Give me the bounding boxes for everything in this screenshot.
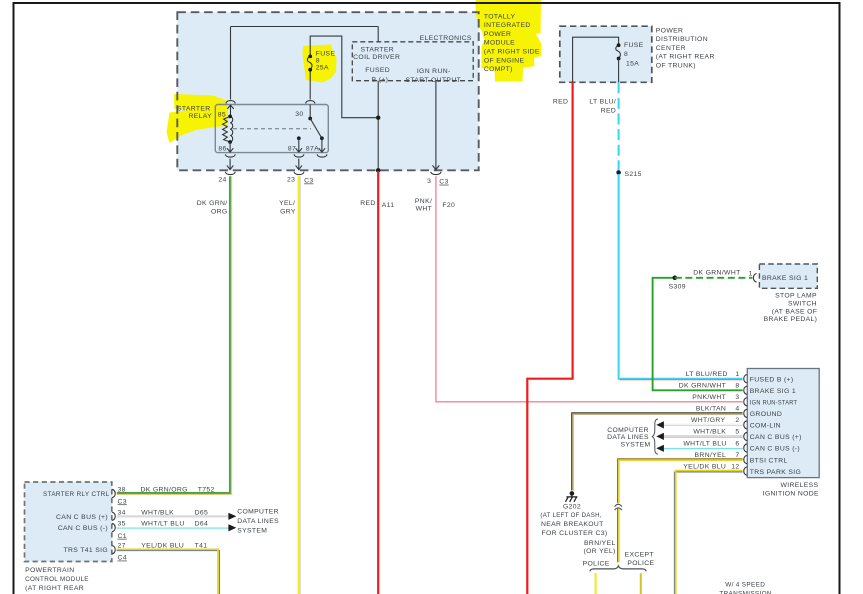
- WIN box fill: [747, 369, 819, 478]
- PDC fuse 8 15A element: [616, 45, 621, 58]
- svg-text:STOP LAMP: STOP LAMP: [775, 293, 817, 300]
- split bracket under BRN/YEL: [590, 566, 646, 572]
- wire: relay 86 to TIPM pin 24: [227, 159, 233, 170]
- svg-text:WHT: WHT: [416, 206, 433, 213]
- wire: relay pin85 riser inside TIPM: [230, 27, 232, 100]
- svg-text:8: 8: [316, 57, 320, 64]
- wire DK GRN/ORG pin24 to PCM 38 (green): [117, 176, 230, 493]
- svg-text:EXCEPT: EXCEPT: [625, 552, 654, 559]
- svg-text:4: 4: [735, 406, 739, 413]
- PCM connector arcs: [112, 489, 115, 554]
- wire: relay 87 to TIPM pin 23: [296, 159, 302, 170]
- svg-text:(OR YEL): (OR YEL): [583, 548, 615, 555]
- arrow: pin 3 at TIPM edge: [433, 165, 440, 169]
- svg-text:CONTROL MODULE: CONTROL MODULE: [25, 576, 89, 583]
- wire LT BLU/RED dashed upper: [618, 82, 620, 172]
- svg-text:RELAY: RELAY: [188, 113, 212, 120]
- wire break symbol on BRN/YEL: [615, 503, 623, 508]
- wire YEL/DK BLU PCM 27 dark tracer: [117, 551, 220, 594]
- PCM dashed border: [25, 482, 112, 562]
- PDC dashed border: [560, 26, 652, 82]
- wire RED from PDC: [527, 82, 572, 594]
- svg-text:DATA LINES: DATA LINES: [237, 518, 279, 525]
- svg-text:POLICE: POLICE: [583, 561, 610, 568]
- wire YEL/DK BLU from WIN 12: yellow: [676, 471, 743, 594]
- svg-text:BRN/YEL: BRN/YEL: [584, 540, 616, 547]
- svg-text:DK GRN/WHT: DK GRN/WHT: [679, 383, 726, 390]
- relay pin87 stub and arrow: [296, 138, 302, 152]
- relay pin85 arrow up: [227, 105, 233, 116]
- svg-text:FOR CLUSTER C3): FOR CLUSTER C3): [541, 530, 607, 537]
- ground G202 symbol: [566, 493, 578, 501]
- wire WHT/LT BLU: [664, 447, 743, 449]
- relay pin86 stub and arrow down: [227, 142, 233, 152]
- svg-text:12: 12: [731, 463, 739, 470]
- svg-text:87A: 87A: [306, 145, 319, 152]
- svg-text:NEAR BREAKOUT: NEAR BREAKOUT: [541, 521, 604, 528]
- svg-text:ORG: ORG: [211, 209, 228, 216]
- wire WHT/BLK PCM 34: [117, 515, 229, 517]
- svg-text:C3: C3: [304, 178, 313, 185]
- svg-text:C4: C4: [118, 555, 127, 562]
- node S309: [673, 276, 678, 281]
- svg-text:DATA LINES: DATA LINES: [607, 434, 649, 441]
- node: TIPM edge junction to RED wire: [376, 168, 381, 173]
- svg-text:BRAKE PEDAL): BRAKE PEDAL): [764, 316, 818, 323]
- wire LT BLU/RED solid to WIN pin1: [619, 174, 743, 379]
- PCM box fill: [25, 482, 112, 562]
- svg-text:OF TRUNK): OF TRUNK): [656, 63, 696, 70]
- wire: fuse8 riser from relay pin30: [309, 70, 311, 100]
- svg-text:POWERTRAIN: POWERTRAIN: [25, 567, 74, 574]
- svg-text:INTEGRATED: INTEGRATED: [484, 22, 531, 29]
- node: pin30 pivot: [308, 117, 312, 121]
- PDC fuse lower stub: [618, 59, 620, 83]
- svg-text:BRAKE SIG 1: BRAKE SIG 1: [750, 388, 796, 395]
- svg-text:YEL/DK BLU: YEL/DK BLU: [683, 463, 726, 470]
- svg-text:1: 1: [749, 270, 753, 277]
- svg-text:BRN/YEL: BRN/YEL: [695, 452, 727, 459]
- svg-text:WIRELESS: WIRELESS: [780, 482, 818, 489]
- svg-text:C3: C3: [439, 179, 448, 186]
- node: 87A contact: [320, 136, 324, 140]
- stop lamp switch dashed border: [759, 264, 817, 288]
- svg-text:CENTER: CENTER: [656, 45, 686, 52]
- svg-text:FUSE: FUSE: [316, 50, 336, 57]
- svg-text:CAN C BUS (-): CAN C BUS (-): [750, 446, 800, 453]
- relay coil R zigzag: [223, 116, 231, 142]
- connector arcs below relay box: [225, 154, 327, 157]
- svg-text:FUSED: FUSED: [365, 67, 390, 74]
- wire WHT/LT BLU PCM 35: [117, 527, 229, 529]
- wire WHT/GRY: [664, 424, 743, 426]
- ground G202 dot: [570, 491, 575, 496]
- svg-text:BTSI CTRL: BTSI CTRL: [750, 457, 788, 464]
- svg-text:COMPT): COMPT): [484, 66, 513, 73]
- wire BLK/TAN black part: [572, 413, 743, 491]
- wire WHT/BLK: [664, 435, 743, 437]
- PDC box fill: [560, 26, 652, 82]
- wire YEL/DK BLU from WIN 12: dark tracer: [674, 472, 742, 594]
- stop lamp switch box fill: [759, 264, 817, 288]
- svg-text:SYSTEM: SYSTEM: [620, 442, 650, 449]
- svg-text:WHT/BLK: WHT/BLK: [693, 429, 726, 436]
- wire BRN/YEL yellow part: [619, 460, 743, 562]
- relay connector arc above box at pin 30: [306, 101, 315, 104]
- svg-text:G202: G202: [563, 504, 581, 511]
- svg-text:STARTER: STARTER: [361, 47, 395, 54]
- TIPM box fill: [177, 12, 478, 170]
- svg-text:38: 38: [118, 487, 126, 494]
- svg-text:DK GRN/: DK GRN/: [197, 200, 228, 207]
- relay connector arc above box at pin 85: [226, 101, 235, 104]
- svg-text:S309: S309: [669, 283, 686, 290]
- wire: IGN RUN-START OUTPUT drop: [435, 81, 437, 169]
- svg-text:PNK/: PNK/: [415, 198, 432, 205]
- data line arrows (right, point left): [656, 421, 664, 452]
- svg-text:RED: RED: [360, 200, 375, 207]
- svg-text:1: 1: [735, 371, 739, 378]
- svg-text:8: 8: [735, 383, 739, 390]
- svg-text:COM-LIN: COM-LIN: [750, 423, 781, 430]
- svg-text:TRS PARK SIG: TRS PARK SIG: [750, 469, 801, 476]
- svg-text:CAN C BUS (-): CAN C BUS (-): [58, 525, 108, 532]
- svg-text:5: 5: [735, 429, 739, 436]
- WIN connector arcs: [744, 375, 747, 476]
- svg-text:PNK/WHT: PNK/WHT: [692, 394, 726, 401]
- svg-text:23: 23: [287, 176, 295, 183]
- wire: fuse8 top to corner: [310, 36, 376, 118]
- svg-text:BRAKE SIG 1: BRAKE SIG 1: [762, 275, 808, 282]
- svg-text:IGNITION NODE: IGNITION NODE: [763, 491, 819, 498]
- wire BRN/YEL brown part: [618, 459, 743, 563]
- svg-text:COMPUTER: COMPUTER: [607, 427, 649, 434]
- WIN box solid border: [747, 369, 819, 478]
- TIPM dashed border: [177, 12, 478, 170]
- svg-text:S215: S215: [625, 171, 642, 178]
- svg-text:86: 86: [218, 145, 226, 152]
- starter relay box: [215, 105, 328, 153]
- svg-text:DK GRN/WHT: DK GRN/WHT: [693, 270, 740, 277]
- svg-text:7: 7: [735, 452, 739, 459]
- wire BLK/TAN tan part: [573, 414, 743, 490]
- fuse F8 pin dots: [308, 55, 312, 59]
- svg-text:(AT LEFT OF DASH,: (AT LEFT OF DASH,: [540, 512, 601, 519]
- relay mech link dashed: [233, 128, 311, 130]
- fuse F8 25A element: [307, 56, 312, 69]
- data line arrows (left, point right): [228, 513, 236, 532]
- relay pin30 stub: [309, 105, 311, 119]
- svg-text:IGN RUN-: IGN RUN-: [417, 68, 451, 75]
- svg-text:TRS T41 SIG: TRS T41 SIG: [63, 547, 108, 554]
- svg-text:STARTER RLY CTRL: STARTER RLY CTRL: [43, 491, 110, 498]
- wire: starter coil driver drop to inner box: [377, 27, 379, 42]
- svg-text:DISTRIBUTION: DISTRIBUTION: [656, 36, 708, 43]
- svg-text:8: 8: [624, 51, 628, 58]
- svg-text:POLICE: POLICE: [627, 560, 654, 567]
- svg-text:(AT RIGHT SIDE: (AT RIGHT SIDE: [484, 49, 540, 56]
- connector arc stop lamp pin1: [753, 274, 756, 283]
- svg-text:FUSE: FUSE: [624, 42, 644, 49]
- wire DK GRN/ORG pin24 to PCM 38 (orange tracer): [117, 176, 232, 494]
- svg-text:START OUTPUT: START OUTPUT: [406, 77, 462, 84]
- node S215: [616, 170, 621, 175]
- svg-text:87: 87: [288, 145, 296, 152]
- svg-text:W/ 4 SPEED: W/ 4 SPEED: [725, 582, 765, 589]
- svg-text:IGN RUN-START: IGN RUN-START: [750, 400, 798, 407]
- svg-text:OF ENGINE: OF ENGINE: [484, 57, 525, 64]
- svg-text:MODULE: MODULE: [484, 40, 515, 47]
- wire PNK/WHT pin3 to WIN pin3: [436, 176, 743, 402]
- connector arcs below TIPM edge pins 24,23: [225, 172, 304, 175]
- svg-text:30: 30: [295, 111, 303, 118]
- PDC fuse pin dots: [617, 43, 621, 47]
- svg-text:FUSED B (+): FUSED B (+): [750, 376, 794, 383]
- svg-text:RED: RED: [601, 107, 616, 114]
- wire: FUSED B(+) output of inner box: [377, 81, 379, 171]
- svg-text:STARTER: STARTER: [177, 105, 211, 112]
- connector arc below TIPM edge at pin 3: [431, 172, 441, 175]
- highlight STARTER RELAY: [167, 94, 229, 143]
- svg-text:3: 3: [735, 394, 739, 401]
- svg-text:6: 6: [735, 440, 739, 447]
- svg-text:3: 3: [427, 178, 431, 185]
- wire RED A11 from TIPM: [377, 171, 379, 594]
- svg-text:(AT BASE OF: (AT BASE OF: [772, 308, 818, 315]
- node: pin 87 dot: [297, 136, 301, 140]
- svg-text:LT BLU/RED: LT BLU/RED: [686, 371, 728, 378]
- relay coil pin dots: [228, 115, 232, 119]
- wire DK GRN/WHT dashed to stop lamp switch: [675, 277, 753, 279]
- svg-text:CAN C BUS (+): CAN C BUS (+): [56, 514, 108, 521]
- relay switch blade 30-87A: [310, 119, 322, 139]
- svg-text:SYSTEM: SYSTEM: [237, 528, 267, 535]
- wire DK GRN/WHT from WIN pin8 to S309: [653, 278, 743, 391]
- computer data lines brace (right): [652, 419, 658, 454]
- svg-text:COIL DRIVER: COIL DRIVER: [353, 54, 400, 61]
- svg-text:15A: 15A: [626, 61, 639, 68]
- relay coil L arcs: [230, 116, 233, 142]
- relay pin87A stub and arrow: [319, 138, 325, 152]
- svg-text:WHT/LT BLU: WHT/LT BLU: [683, 440, 726, 447]
- svg-text:B (+): B (+): [372, 76, 389, 83]
- svg-text:POWER: POWER: [656, 27, 683, 34]
- svg-text:WHT/GRY: WHT/GRY: [691, 417, 726, 424]
- svg-text:C1: C1: [118, 533, 127, 540]
- svg-text:POWER: POWER: [484, 31, 511, 38]
- wire YEL/GRY pin23 (gray tracer): [299, 176, 301, 594]
- svg-text:GROUND: GROUND: [750, 411, 782, 418]
- starter coil driver inner dashed box: [352, 42, 473, 81]
- wire YEL police branch: [595, 573, 597, 594]
- svg-text:RED: RED: [553, 99, 568, 106]
- wire: TIPM top horizontal (coil driver to pin 85): [231, 26, 379, 28]
- svg-text:85: 85: [218, 112, 226, 119]
- svg-text:(AT RIGHT REAR: (AT RIGHT REAR: [656, 54, 715, 61]
- svg-text:YEL/: YEL/: [279, 200, 295, 207]
- svg-text:(AT RIGHT REAR: (AT RIGHT REAR: [25, 585, 84, 592]
- svg-text:TOTALLY: TOTALLY: [484, 13, 516, 20]
- svg-text:LT BLU/: LT BLU/: [589, 99, 616, 106]
- svg-text:TRANSMISSION: TRANSMISSION: [719, 590, 771, 594]
- PDC internal wire left: [573, 37, 619, 82]
- wire YEL/GRY pin23 (yellow): [298, 176, 300, 594]
- svg-text:F20: F20: [442, 202, 455, 209]
- wire LT BLU/RED red tracer on horizontal: [620, 379, 743, 381]
- wire YEL/DK BLU PCM 27 yellow: [117, 549, 218, 594]
- svg-text:2: 2: [735, 417, 739, 424]
- svg-text:25A: 25A: [316, 65, 329, 72]
- node: junction FUSED B(+): [376, 116, 380, 120]
- svg-text:COMPUTER: COMPUTER: [237, 508, 279, 515]
- svg-text:SWITCH: SWITCH: [788, 301, 817, 308]
- svg-text:GRY: GRY: [280, 209, 296, 216]
- svg-text:24: 24: [218, 176, 226, 183]
- highlight FUSE 8 25A: [303, 45, 337, 83]
- svg-text:BLK/TAN: BLK/TAN: [696, 406, 726, 413]
- highlight TOTALLY INTEGRATED POWER MODULE: [476, 0, 542, 82]
- wire YEL except-police branch: [640, 573, 642, 594]
- svg-text:DK GRN/ORG: DK GRN/ORG: [141, 487, 188, 494]
- svg-text:ELECTRONICS: ELECTRONICS: [420, 35, 472, 42]
- svg-text:T752: T752: [198, 487, 215, 494]
- svg-text:CAN C BUS (+): CAN C BUS (+): [750, 434, 802, 441]
- svg-text:C3: C3: [118, 498, 127, 505]
- svg-text:A11: A11: [382, 202, 395, 209]
